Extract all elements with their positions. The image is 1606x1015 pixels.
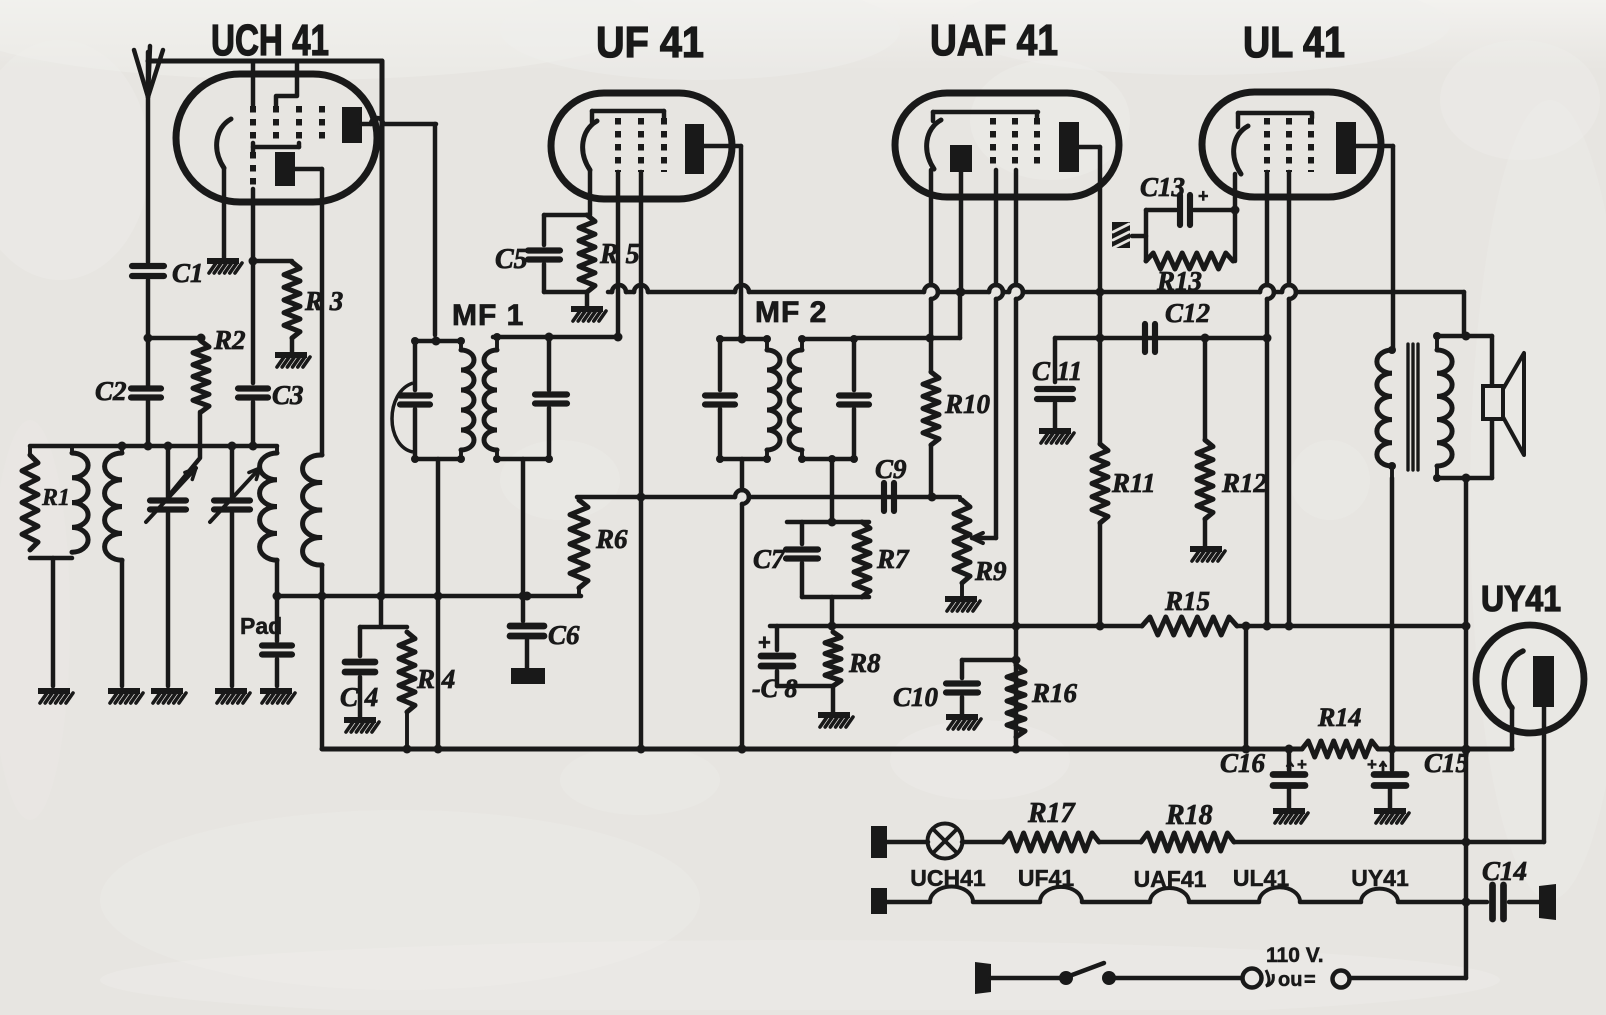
- svg-text:R11: R11: [1111, 468, 1156, 498]
- svg-text:C1: C1: [172, 258, 204, 288]
- svg-text:C9: C9: [875, 454, 907, 484]
- svg-text:C10: C10: [893, 682, 939, 712]
- svg-text:C13: C13: [1140, 172, 1185, 202]
- svg-text:C 11: C 11: [1032, 356, 1082, 386]
- svg-text:UCH41: UCH41: [910, 865, 986, 891]
- svg-text:+: +: [758, 630, 771, 655]
- svg-text:MF 2: MF 2: [755, 296, 827, 329]
- svg-text:UL41: UL41: [1233, 865, 1289, 891]
- svg-text:+: +: [1198, 186, 1209, 206]
- svg-text:UF41: UF41: [1018, 865, 1074, 891]
- svg-text:ou: ou: [1278, 969, 1302, 991]
- svg-text:C3: C3: [272, 380, 304, 410]
- svg-text:R13: R13: [1156, 266, 1202, 296]
- svg-text:R15: R15: [1164, 586, 1210, 616]
- svg-text:C14: C14: [1482, 856, 1527, 886]
- svg-text:MF 1: MF 1: [452, 299, 524, 332]
- svg-text:UY41: UY41: [1481, 578, 1561, 619]
- svg-text:R7: R7: [876, 544, 910, 574]
- svg-text:R2: R2: [213, 325, 246, 355]
- svg-text:UF 41: UF 41: [596, 18, 704, 67]
- svg-text:R16: R16: [1031, 678, 1078, 708]
- svg-text:C16: C16: [1220, 748, 1266, 778]
- svg-text:C6: C6: [548, 620, 580, 650]
- svg-text:R18: R18: [1165, 800, 1213, 831]
- svg-text:R8: R8: [848, 648, 881, 678]
- svg-text:R6: R6: [595, 524, 628, 554]
- svg-text:=: =: [1304, 969, 1316, 991]
- svg-text:R12: R12: [1221, 468, 1267, 498]
- svg-text:C 4: C 4: [340, 682, 378, 712]
- svg-text:R17: R17: [1027, 798, 1076, 829]
- svg-text:C7: C7: [753, 544, 786, 574]
- svg-text:R 5: R 5: [599, 239, 640, 270]
- svg-text:C12: C12: [1165, 298, 1210, 328]
- svg-text:R14: R14: [1317, 703, 1361, 732]
- svg-text:UCH 41: UCH 41: [211, 16, 329, 65]
- svg-text:UAF41: UAF41: [1134, 866, 1207, 892]
- svg-text:110 V.: 110 V.: [1266, 944, 1324, 967]
- svg-text:C15: C15: [1424, 748, 1469, 778]
- svg-text:+: +: [1297, 755, 1307, 774]
- svg-text:-C 8: -C 8: [752, 674, 798, 703]
- svg-text:UY41: UY41: [1351, 865, 1409, 891]
- svg-text:R 4: R 4: [416, 664, 455, 694]
- svg-text:+: +: [1367, 755, 1377, 774]
- svg-text:UL 41: UL 41: [1243, 18, 1345, 67]
- svg-text:Pad: Pad: [240, 613, 282, 639]
- svg-text:R1: R1: [41, 485, 70, 511]
- svg-text:R9: R9: [974, 556, 1007, 586]
- svg-text:C2: C2: [95, 376, 127, 406]
- svg-text:C5: C5: [495, 244, 528, 275]
- svg-text:UAF 41: UAF 41: [930, 16, 1058, 65]
- svg-text:R10: R10: [944, 389, 991, 419]
